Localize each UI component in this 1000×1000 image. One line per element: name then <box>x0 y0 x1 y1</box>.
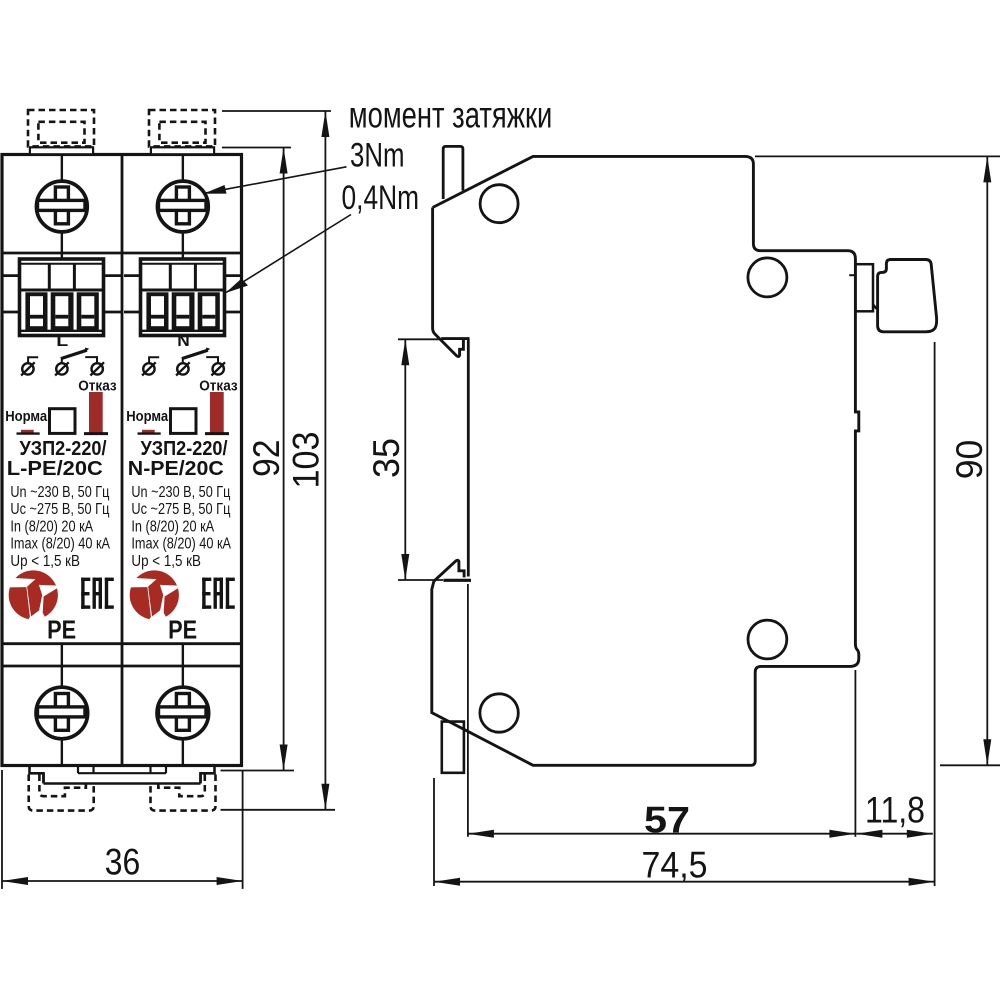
ext line 57/11.8 mid <box>854 670 856 837</box>
dim line 11.8 <box>856 833 932 835</box>
upper groove full line <box>2 252 242 255</box>
arrow 92 down <box>280 745 288 771</box>
dim line 90 <box>986 156 988 765</box>
ext line bottom 92 <box>221 770 295 772</box>
side bottom terminal tab <box>442 722 464 773</box>
arrow 103 down <box>321 784 329 810</box>
svg-text:36: 36 <box>105 842 141 883</box>
module 2 <box>124 110 242 766</box>
dim line 103 <box>324 111 326 810</box>
ext line 57 left <box>467 584 469 837</box>
svg-text:N-PE/20C: N-PE/20C <box>128 458 224 480</box>
svg-text:74,5: 74,5 <box>642 845 708 886</box>
side top terminal tab <box>443 146 463 199</box>
DIN clip dashed right <box>151 775 216 811</box>
svg-text:L: L <box>56 333 68 350</box>
svg-text:N: N <box>177 333 190 350</box>
arrow 74.5 left <box>434 878 460 886</box>
arrow 74.5 right <box>909 878 935 886</box>
dim line 92 <box>283 148 285 771</box>
mounting holes <box>480 185 518 223</box>
upper hook top edge <box>441 337 469 340</box>
svg-text:35: 35 <box>366 438 407 478</box>
ext line 90 top <box>755 155 1000 157</box>
svg-text:92: 92 <box>246 440 287 478</box>
arrow 11.8 left <box>856 830 882 838</box>
latch knob <box>878 260 937 332</box>
arrow 90 up <box>983 156 991 182</box>
svg-text:11,8: 11,8 <box>865 790 925 831</box>
front body outline <box>2 155 242 766</box>
latch connector block <box>855 264 873 311</box>
arrow 35 down <box>401 554 409 580</box>
lower hook bottom edge <box>443 579 471 582</box>
leader 0.4Nm <box>226 215 351 293</box>
ext lines 35 <box>398 338 441 340</box>
dim line 57 <box>468 833 856 835</box>
ext line 90 bottom <box>940 764 1000 766</box>
DIN clip dashed left <box>29 775 94 811</box>
arrow 92 up <box>280 148 288 174</box>
arrow 57 right <box>829 830 855 838</box>
svg-text:0,4Nm: 0,4Nm <box>342 179 420 217</box>
arrow 57 left <box>468 830 494 838</box>
DIN tab solid <box>30 766 215 784</box>
leader arrowhead 0.4Nm <box>226 279 249 294</box>
arrow 11.8 right <box>907 830 933 838</box>
svg-text:90: 90 <box>949 440 990 480</box>
side body outline <box>432 156 859 765</box>
dim line 74.5 <box>434 881 935 883</box>
svg-text:момент затяжки: момент затяжки <box>349 94 553 135</box>
ext line top 92 <box>222 147 291 149</box>
arrow 36 left <box>2 877 28 885</box>
arrow 36 right <box>217 877 243 885</box>
arrow 103 up <box>321 111 329 137</box>
arrow 90 down <box>983 739 991 765</box>
svg-text:L-PE/20C: L-PE/20C <box>7 458 103 480</box>
arrow 35 up <box>401 339 409 365</box>
separator line upper <box>2 642 242 645</box>
ext line bottom 103 <box>221 809 336 811</box>
ext lines 36 <box>1 770 3 889</box>
svg-text:103: 103 <box>286 432 327 489</box>
ext line 74.5 left <box>433 778 435 886</box>
dim line 36 <box>2 880 243 882</box>
dim line 35 <box>404 339 406 580</box>
rail recess edge <box>467 339 470 577</box>
upper hook <box>433 208 464 357</box>
svg-text:3Nm: 3Nm <box>350 136 405 174</box>
module divider <box>121 155 124 766</box>
leader arrowhead 3Nm <box>204 185 227 194</box>
side small notch tick <box>849 274 855 276</box>
ext line 11.8/74.5 right <box>934 342 936 886</box>
svg-text:57: 57 <box>644 800 690 841</box>
module 1 <box>3 110 121 766</box>
leader 3Nm <box>204 167 347 194</box>
separator line lower <box>2 665 242 668</box>
ext line top 103 <box>222 110 331 112</box>
